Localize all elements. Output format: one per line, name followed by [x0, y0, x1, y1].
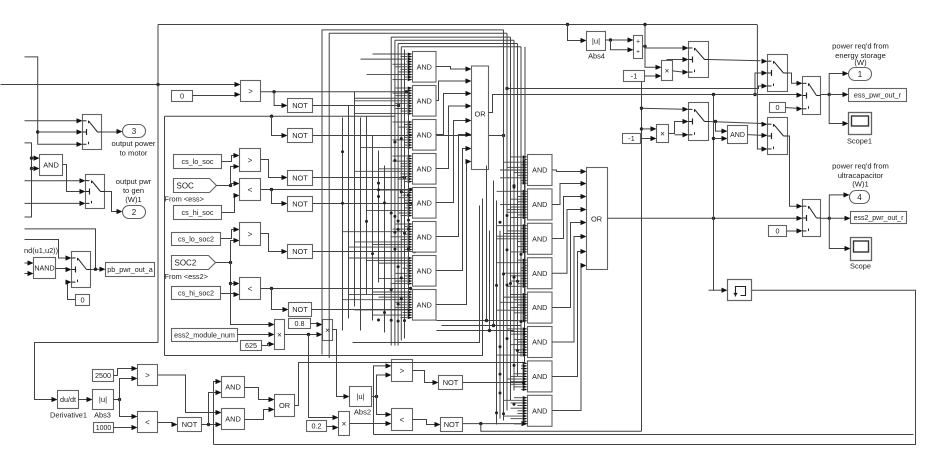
- arrowhead x1 in1: [656, 65, 662, 70]
- arrowhead OR1 in6: [466, 132, 472, 137]
- wire Abs4 to sum in2: [611, 40, 629, 50]
- wire 0 to switchE: [786, 107, 798, 110]
- fan2 stub wire: [521, 179, 523, 181]
- svg-text:NOT: NOT: [443, 378, 459, 387]
- svg-text:AND: AND: [225, 415, 241, 424]
- arrowhead AND2_2 input 10: [523, 213, 528, 216]
- arrowhead AND1_1 input 10: [408, 75, 413, 78]
- arrowhead switchF in3: [797, 228, 803, 233]
- fan2 stub wire: [514, 338, 523, 340]
- junction fan2: [513, 186, 516, 189]
- arrowhead Scope1: [843, 121, 849, 126]
- arrowhead AND1_2 input 9: [408, 107, 413, 110]
- arrowhead AND1_6 input 2: [408, 225, 413, 228]
- junction fan1: [400, 297, 403, 300]
- arrowhead AND1_1 input 4: [408, 60, 413, 63]
- arrowhead switch3 in2: [66, 267, 72, 272]
- arrowhead xC in1: [333, 415, 339, 420]
- arrowhead switch2 in2: [80, 189, 86, 194]
- junction pb input: [94, 268, 97, 271]
- fan1 stub wire: [399, 212, 408, 214]
- arrowhead NOT6 in: [283, 307, 289, 312]
- svg-text:cs_hi_soc2: cs_hi_soc2: [178, 289, 214, 298]
- fan2 stub wire: [518, 259, 523, 261]
- relational operator LTS2: [240, 278, 261, 300]
- svg-text:cs_hi_soc: cs_hi_soc: [182, 208, 214, 217]
- arrowhead AND2_4 input 7: [523, 274, 528, 277]
- routing wire loop 6 top: [401, 46, 521, 48]
- junction fan2: [520, 320, 523, 323]
- arrowhead AND2_4 input 6: [523, 272, 528, 275]
- fan2 stub wire: [511, 251, 523, 253]
- fan1 stub wire: [361, 58, 408, 60]
- arrowhead AND2_6 input 6: [523, 340, 528, 343]
- fan1 stub wire: [343, 299, 408, 301]
- relational operator LT_R: [392, 409, 413, 431]
- from tag SOC: [174, 179, 217, 193]
- arrowhead AND2_7 input 2: [523, 364, 528, 367]
- fan1 stub wire: [367, 209, 408, 211]
- wire to Scope1: [829, 95, 843, 124]
- arrowhead AND1_5 input 9: [408, 209, 413, 212]
- junction switchB in1 feed: [640, 107, 643, 110]
- arrowhead switch1 in2: [77, 129, 83, 134]
- svg-text:NOT: NOT: [292, 247, 308, 256]
- junction sum out: [643, 45, 646, 48]
- wire switchB in3: [675, 134, 684, 136]
- arrowhead AND1_5 input 6: [408, 201, 413, 204]
- junction fan1: [407, 227, 410, 230]
- fan1 vertical wire 5: [366, 117, 368, 295]
- fan2 stub wire: [511, 156, 523, 158]
- fan1 stub wire: [405, 76, 408, 78]
- wire NOT_L out: [202, 424, 218, 426]
- arrowhead AND1_2 input 8: [408, 104, 413, 107]
- fan1 stub wire: [405, 199, 408, 201]
- arrowhead AND2_4 input 5: [523, 269, 528, 272]
- fan1 stub wire: [403, 311, 408, 313]
- junction fan2: [506, 248, 509, 251]
- fan2 stub wire: [523, 362, 525, 364]
- fan1 stub wire: [367, 260, 408, 262]
- junction main signal: [156, 83, 159, 86]
- arrowhead OR2 in1: [581, 169, 587, 174]
- svg-text:NOT: NOT: [444, 420, 460, 429]
- arrowhead AND2_3 input 11: [523, 250, 528, 253]
- arrowhead switchA in3: [683, 70, 689, 75]
- arrowhead Scope: [845, 246, 851, 251]
- outport 1: [849, 68, 872, 81]
- fan1 stub wire: [379, 277, 408, 279]
- junction AND_L in1: [30, 156, 33, 159]
- fan2 stub wire: [507, 209, 523, 211]
- wire ANDR to switchD: [748, 134, 763, 137]
- scope Scope: [851, 238, 872, 261]
- arrowhead AND1_7 input 1: [408, 256, 413, 259]
- fan2 stub wire: [511, 344, 523, 346]
- fan1 stub wire: [396, 306, 408, 308]
- junction ANDR feed: [712, 137, 715, 140]
- svg-text:NOT: NOT: [292, 200, 308, 209]
- fan2 stub wire: [511, 294, 523, 296]
- arrowhead AND2_3 input 1: [523, 224, 528, 227]
- fan1 stub wire: [355, 241, 408, 243]
- arrowhead AND1_4 input 9: [408, 175, 413, 178]
- fan1 stub wire: [405, 202, 408, 204]
- logical operator NOT_RB: [441, 418, 463, 432]
- stub: [32, 157, 35, 159]
- arrowhead ANDR in2: [722, 136, 728, 141]
- wire dudt to Abs3: [79, 399, 88, 401]
- arrowhead AND1_3 input 9: [408, 141, 413, 144]
- inner routing vertical: [164, 116, 166, 355]
- wire NOT_L to AND_T in2: [209, 393, 217, 425]
- junction GT0 out: [272, 90, 275, 93]
- arrowhead GT_R in1: [386, 363, 392, 368]
- fan1 stub wire: [349, 246, 408, 248]
- fan2 vertical wire 3: [510, 37, 512, 400]
- logical operator AND1_7: [413, 256, 437, 287]
- arrowhead sum in1: [628, 37, 634, 42]
- stub: [32, 168, 35, 170]
- arrowhead AND1_4 input 11: [408, 180, 413, 183]
- relational operator GT_R: [392, 360, 413, 382]
- long routing wire y434: [374, 434, 914, 436]
- arrowhead OR2 in4: [581, 207, 587, 212]
- arrowhead AND2_3 input 2: [523, 227, 528, 230]
- svg-text:ess2_pwr_out_r: ess2_pwr_out_r: [854, 215, 904, 222]
- svg-text:AND: AND: [417, 164, 432, 173]
- junction fan1: [383, 311, 386, 314]
- arrowhead AND2_2 input 8: [523, 208, 528, 211]
- wire switchF out: [821, 217, 830, 219]
- fan2 stub wire: [518, 196, 523, 198]
- arrowhead switchC in2: [762, 70, 768, 75]
- arrowhead AND1_6 input 4: [408, 230, 413, 233]
- fan1 stub wire: [349, 257, 408, 259]
- wire to switch1 in1: [25, 120, 78, 122]
- fan2 stub wire: [511, 217, 523, 219]
- junction fan2: [495, 411, 498, 414]
- svg-text:NOT: NOT: [292, 305, 308, 314]
- svg-text:Scope: Scope: [850, 262, 871, 271]
- svg-text:>: >: [248, 87, 253, 96]
- fan2 stub wire: [518, 283, 523, 285]
- arrowhead AND1_7 input 9: [408, 277, 413, 280]
- arrowhead NOT5 in: [282, 249, 288, 254]
- outport 4: [850, 191, 870, 204]
- arrowhead AND1_8 input 4: [408, 298, 413, 301]
- fan1 stub wire: [405, 90, 408, 92]
- wire AND1_6 to OR1: [436, 135, 467, 237]
- arrowhead AND1_6 input 10: [408, 245, 413, 248]
- outport 2: [123, 206, 146, 219]
- fan2 stub wire: [521, 193, 523, 195]
- wire NOT_RB out: [463, 423, 523, 425]
- arrowhead NOT_RT in: [433, 380, 439, 385]
- svg-text:AND: AND: [43, 161, 59, 170]
- junction fan2: [499, 345, 502, 348]
- fan2 stub wire: [504, 399, 523, 401]
- fan1 stub wire: [405, 207, 408, 209]
- junction swC in2 feed: [753, 93, 756, 96]
- arrowhead ANDR in1: [722, 129, 728, 134]
- svg-text:1: 1: [858, 70, 863, 79]
- from ess2_module_num: [172, 329, 238, 342]
- fan1 stub wire: [391, 283, 408, 285]
- fan1 stub wire: [373, 314, 408, 316]
- arrowhead pb input: [100, 267, 106, 272]
- junction fan1: [390, 212, 393, 215]
- fan2 stub wire: [511, 275, 523, 277]
- fan1 stub wire: [396, 272, 408, 274]
- wire SOC2 out: [216, 262, 231, 264]
- junction switch1 in2: [36, 130, 39, 133]
- arrowhead AND1_6 input 7: [408, 238, 413, 241]
- routing wire bottom to fan: [353, 206, 480, 343]
- fan2 stub wire: [518, 174, 523, 176]
- fan2 stub wire: [500, 169, 523, 171]
- wire to ess_pwr_out_r: [829, 94, 843, 96]
- junction fan1: [390, 319, 393, 322]
- wire loop to AND_T in1: [214, 382, 217, 445]
- svg-text:AND: AND: [532, 234, 547, 243]
- fan2 stub wire: [497, 235, 523, 237]
- svg-text:(W)1: (W)1: [852, 179, 868, 188]
- constant 0 left: [76, 295, 90, 306]
- arrowhead AND2_6 input 9: [523, 348, 528, 351]
- junction fan2: [506, 284, 509, 287]
- wire loop to GT_R in1: [374, 366, 387, 435]
- wire LTS2 out: [261, 288, 411, 290]
- arrowhead Abs2 in: [344, 394, 350, 399]
- arrowhead switchF in1: [797, 204, 803, 209]
- switch SwitchE: [803, 77, 821, 115]
- arrowhead AND1_1 input 2: [408, 55, 413, 58]
- arrowhead AND1_6 input 5: [408, 233, 413, 236]
- svg-text:cs_lo_soc2: cs_lo_soc2: [178, 235, 214, 244]
- arrowhead AND2_2 input 11: [523, 216, 528, 219]
- goto ess2_pwr_out_r: [851, 212, 907, 224]
- routing wire loop 5 top: [398, 43, 517, 45]
- logical operator AND1_6: [413, 222, 437, 253]
- fan2 stub wire: [497, 225, 523, 227]
- wire to switch2 in3: [25, 202, 81, 204]
- junction Abs3 out: [118, 398, 121, 401]
- arrowhead switch3 in1: [66, 255, 72, 260]
- wire switchC to switchE: [788, 73, 798, 83]
- svg-text:output pwr: output pwr: [116, 177, 152, 186]
- wire NOT_RB branch loop: [481, 424, 642, 432]
- arrowhead AND2_1 input 8: [523, 174, 528, 177]
- wire branch vertical: [713, 95, 715, 291]
- fan1 stub wire: [391, 236, 408, 238]
- svg-text:power req'd from: power req'd from: [832, 42, 889, 51]
- wire to x2 in1: [642, 128, 652, 130]
- wire AND_L feed: [25, 143, 32, 217]
- arrowhead AND2_1 input 9: [523, 176, 528, 179]
- fan1 stub wire: [406, 131, 409, 133]
- wire NOT2 out: [313, 135, 504, 137]
- svg-text:AND: AND: [417, 232, 432, 241]
- wire GTS2 to NOT5: [261, 234, 283, 252]
- fan2 stub wire: [497, 354, 523, 356]
- arrowhead AND2_8 input 1: [523, 396, 528, 399]
- svg-text:cs_lo_soc: cs_lo_soc: [182, 157, 214, 166]
- wire cs_hi_soc to LTS: [222, 196, 235, 213]
- svg-text:nd(u1,u2)): nd(u1,u2)): [24, 246, 58, 255]
- fan1 stub wire: [373, 291, 408, 293]
- arrowhead AND1_3 input 3: [408, 126, 413, 129]
- wire NOT4 out: [313, 203, 413, 205]
- arrowhead AND2_8 input 7: [523, 412, 528, 415]
- arrowhead AND1_7 input 7: [408, 272, 413, 275]
- fan2 stub wire: [511, 383, 523, 385]
- wire to derivative: [35, 343, 159, 400]
- svg-text:output power: output power: [112, 139, 156, 148]
- arrowhead AND1_5 input 8: [408, 206, 413, 209]
- svg-text:NAND: NAND: [34, 264, 54, 273]
- logical operator AND1_5: [413, 188, 437, 219]
- svg-text:<: <: [248, 284, 253, 293]
- switch SwitchB: [689, 103, 709, 141]
- outport 3: [123, 125, 146, 138]
- junction SOC2 to LTS2: [229, 282, 232, 285]
- svg-text:AND: AND: [532, 338, 547, 347]
- logical operator OR_L: [275, 395, 295, 417]
- fan2 stub wire: [497, 190, 523, 192]
- svg-text:to gen: to gen: [123, 186, 144, 195]
- scope Scope1: [849, 113, 872, 135]
- arrowhead AND2_2 input 5: [523, 200, 528, 203]
- fan2 stub wire: [507, 230, 523, 232]
- wire switchA in2: [667, 59, 684, 61]
- routing wire loop 2 top: [329, 33, 507, 358]
- goto pb_pwr_out_a: [106, 263, 155, 277]
- arrowhead AND1_8 input 9: [408, 311, 413, 314]
- arrowhead AND1_8 input 8: [408, 308, 413, 311]
- logical operator AND2_2: [528, 189, 553, 220]
- logical operator AND1_8: [413, 290, 437, 321]
- arrowhead AND2_4 input 1: [523, 259, 528, 262]
- fan2 stub wire: [504, 161, 523, 163]
- fan1 stub wire: [406, 270, 409, 272]
- arrowhead switch1 in1: [77, 118, 83, 123]
- fan2 stub wire: [511, 407, 523, 409]
- arrowhead AND1_1 input 8: [408, 70, 413, 73]
- fan1 stub wire: [396, 102, 408, 104]
- fan1 stub wire: [406, 61, 409, 63]
- svg-text:ess2_module_num: ess2_module_num: [174, 331, 235, 340]
- junction NOT_L out: [207, 423, 210, 426]
- arrowhead AND2_7 input 8: [523, 380, 528, 383]
- arrowhead AND1_7 input 2: [408, 259, 413, 262]
- arrowhead AND2_7 input 3: [523, 367, 528, 370]
- svg-text:to motor: to motor: [120, 149, 148, 158]
- fan2 stub wire: [521, 267, 523, 269]
- junction fan1: [397, 320, 400, 323]
- arrowhead NOT3 in: [282, 175, 288, 180]
- arrowhead AND2_3 input 9: [523, 245, 528, 248]
- svg-text:<: <: [145, 418, 150, 427]
- arrowhead AND2_5 input 9: [523, 314, 528, 317]
- fan2 stub wire: [518, 304, 523, 306]
- fan1 vertical wire 14: [408, 92, 410, 310]
- arrowhead NOT1 in: [282, 103, 288, 108]
- wire LT_R to NOT_RB: [413, 420, 436, 425]
- relational operator GT0: [241, 81, 261, 102]
- fan1 stub wire: [396, 87, 408, 89]
- junction NOT4 fan: [411, 202, 414, 205]
- wire Abs3 out: [114, 399, 120, 401]
- wire AND2_7 to OR2: [552, 252, 582, 377]
- arrowhead xB in1: [317, 322, 323, 327]
- arrowhead AND1_3 input 7: [408, 136, 413, 139]
- arrowhead OR2 in8: [581, 263, 587, 268]
- arrowhead memory in: [722, 288, 728, 293]
- wire sum out: [643, 45, 646, 47]
- inner routing bottom: [165, 199, 483, 356]
- svg-text:×: ×: [665, 66, 670, 75]
- arrowhead LTS2 in2: [234, 292, 240, 297]
- wire 625 to xA: [262, 344, 270, 346]
- arrowhead AND1_2 input 1: [408, 86, 413, 89]
- logical operator AND2_1: [528, 155, 553, 186]
- fan1 vertical wire 1: [342, 118, 344, 331]
- svg-text:AND: AND: [532, 303, 547, 312]
- arrowhead AND2_6 input 4: [523, 335, 528, 338]
- arrowhead AND2_6 input 10: [523, 351, 528, 354]
- svg-text:power req'd from: power req'd from: [832, 162, 889, 171]
- junction fan1: [407, 219, 410, 222]
- logical operator AND1_3: [413, 120, 437, 151]
- arrowhead AND1_6 input 6: [408, 235, 413, 238]
- wire from left to pb junction: [25, 229, 96, 269]
- svg-text:Abs3: Abs3: [94, 411, 111, 420]
- svg-text:2: 2: [132, 208, 137, 217]
- wire const0 to GT0: [193, 95, 236, 97]
- arrowhead ess2_pwr_out_r: [845, 216, 851, 221]
- arrowhead NAND in1: [28, 260, 34, 265]
- wire AND2_5 to OR2: [552, 223, 582, 308]
- junction AND_L in2: [30, 167, 33, 170]
- fan2 stub wire: [518, 201, 523, 203]
- arrowhead LT_L in1: [132, 414, 138, 419]
- constant 0.8: [289, 319, 311, 329]
- arrowhead AND2_2 input 3: [523, 195, 528, 198]
- logical operator AND2_5: [528, 292, 553, 323]
- switch Switch3: [72, 252, 91, 288]
- wire up to switchC in2: [755, 73, 763, 95]
- arrowhead AND1_4 input 3: [408, 160, 413, 163]
- wire Abs3 to LT_L in1: [120, 400, 133, 417]
- fan1 stub wire: [401, 215, 408, 217]
- fan2 vertical wire 9: [499, 231, 501, 419]
- arrowhead switchE in1: [797, 81, 803, 86]
- constant 0 r1: [770, 103, 786, 113]
- relational operator LTS: [240, 179, 261, 201]
- wire const0 to switch3 in3: [67, 282, 76, 299]
- arrowhead AND1_6 input 8: [408, 240, 413, 243]
- wire LTS out: [261, 189, 411, 191]
- svg-text:SOC2: SOC2: [175, 258, 197, 267]
- arrowhead LTS in2: [234, 193, 240, 198]
- svg-text:SOC: SOC: [177, 181, 195, 190]
- fan1 stub wire: [399, 197, 408, 199]
- relational operator GT_L: [138, 365, 158, 386]
- fan2 stub wire: [507, 328, 523, 330]
- arrowhead ess_pwr_out_r: [843, 92, 849, 97]
